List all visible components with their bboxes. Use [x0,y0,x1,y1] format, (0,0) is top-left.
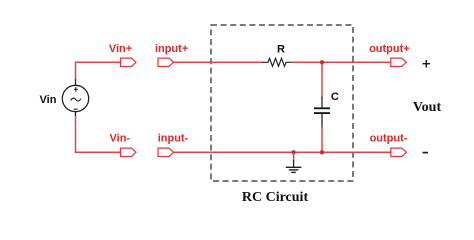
wire Vin- : source bottom to Vin- port [76,116,121,152]
voltage source U1 (AC source Vin) [62,79,88,116]
wire capacitor C bottom branch [321,127,323,153]
svg-text:Vout: Vout [413,100,442,115]
node junction top (R / C / output+) [320,60,324,64]
label output- [370,133,408,145]
label - (Vout negative terminal) [423,152,429,154]
svg-text:R: R [277,43,285,55]
svg-text:input+: input+ [155,43,188,55]
svg-text:input-: input- [158,133,189,145]
wire capacitor C top branch [321,62,323,98]
svg-text:Vin-: Vin- [110,133,131,145]
svg-text:Vin+: Vin+ [109,43,132,55]
port output+ [391,58,407,66]
RC Circuit dashed box [211,25,353,181]
svg-text:C: C [331,91,339,103]
label Vin- [110,133,131,145]
label R [277,43,285,55]
wire input+ to resistor R [174,61,263,63]
svg-text:RC Circuit: RC Circuit [242,190,309,205]
wire resistor R to output+ port [292,61,391,63]
port Vin- [121,148,137,156]
wire Vin+ : source top to Vin+ port [76,62,121,79]
svg-text:output-: output- [370,133,408,145]
label Vout [413,100,442,115]
label Vin+ [109,43,132,55]
ground [286,160,302,172]
node junction ground (bottom rail) [291,150,295,154]
port input- [158,148,174,156]
node junction bottom (C to bottom rail) [320,150,324,154]
svg-text:Vin: Vin [40,94,57,106]
label RC Circuit [242,190,309,205]
resistor R [262,58,292,66]
port input+ [158,58,174,66]
port Vin+ [121,58,137,66]
label C [331,91,339,103]
label + (Vout positive terminal) [423,60,431,68]
port output- [391,148,407,156]
capacitor C [314,97,330,128]
svg-text:output+: output+ [369,43,410,55]
wire ground stub [293,152,295,160]
wire input- to output- port [174,151,391,153]
label input+ [155,43,188,55]
label output+ [369,43,410,55]
label Vin [40,94,57,106]
label input- [158,133,189,145]
